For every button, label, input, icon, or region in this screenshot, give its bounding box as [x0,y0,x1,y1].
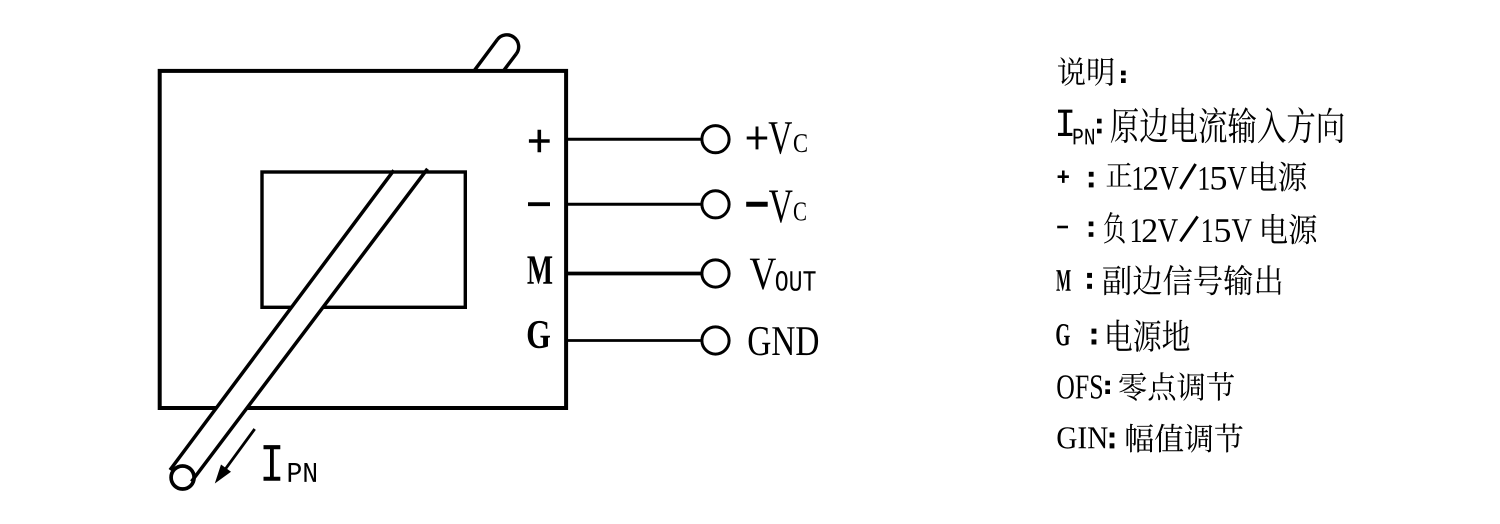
legend line3 zheng [1107,163,1132,187]
label +VC subscript C [794,134,807,152]
legend line2 letter I [1058,110,1072,136]
legend line2 text yuanbian dianliu shuru fangxiang [1111,107,1344,143]
label VOUT subscript OUT [776,271,816,291]
legend line3 plus sign [1058,171,1069,183]
pin label - (minus sign) [528,202,550,206]
aperture window (inner rectangle) [262,172,465,307]
label IPN letter I [264,445,281,481]
legend line4 12V/15V [1132,219,1252,242]
current direction arrow shaft [223,429,255,472]
legend line4 colon [1089,222,1094,227]
legend line5 fubian xinhao shuchu [1103,265,1281,296]
legend line7 lingdian tiaojie [1119,372,1234,401]
primary conductor white body (occludes rectangle edges) [170,175,423,482]
legend line8 GIN [1058,427,1108,448]
legend line6 letter G [1056,324,1070,346]
legend line3 dianyuan [1252,162,1306,192]
pin label + (plus sign) [529,130,550,152]
legend line4 minus sign [1057,226,1068,229]
pin label M [527,256,552,283]
legend line8 fuzhi tiaojie [1127,423,1243,452]
label -VC letter V [769,191,792,223]
label VOUT letter V [750,259,776,290]
legend line2 colon [1097,119,1102,124]
transducer body (outer rectangle) [160,71,566,408]
primary conductor tip rounded cap [497,35,518,54]
label GND [749,327,819,356]
legend line5 colon [1087,273,1092,278]
legend line6 dianyuandi [1108,320,1190,352]
legend line1 colon [1121,71,1126,76]
legend line4 fu [1104,212,1125,244]
label IPN subscript PN [289,463,316,482]
terminal circle VOUT [702,260,729,287]
legend line8 colon [1110,433,1115,438]
legend line4 dianyuan [1262,214,1316,244]
pin label G [528,321,550,348]
legend line4 slash of 12V/15V [1180,216,1197,241]
primary conductor tip nub above box [474,40,517,72]
legend line6 colon [1092,329,1097,334]
terminal circle GND [702,327,729,354]
wire pin G to GND terminal [566,339,702,342]
wire pin - to -VC terminal [566,203,702,206]
wire pin + to +VC terminal [566,138,702,141]
label -VC subscript C [794,202,806,220]
terminal circle -VC [702,191,729,218]
legend line3 colon [1089,172,1094,177]
legend line5 letter M [1056,270,1070,291]
legend line1 shuoming [1058,57,1114,86]
label -VC minus sign [746,202,768,207]
legend line2 subscript PN [1074,129,1094,145]
legend line7 OFS [1057,375,1102,398]
legend line7 colon [1105,381,1110,386]
primary conductor bottom end circle [171,466,194,489]
terminal circle +VC [702,126,729,153]
legend line3 12V/15V [1134,167,1247,190]
label +VC letter V [769,122,792,154]
wire pin M to VOUT terminal [566,272,702,276]
legend line3 slash of 12V/15V [1180,164,1195,189]
primary conductor bar outline (diagonal rod) [170,169,428,482]
label +VC plus sign [747,127,768,150]
current direction arrow head [215,465,231,484]
